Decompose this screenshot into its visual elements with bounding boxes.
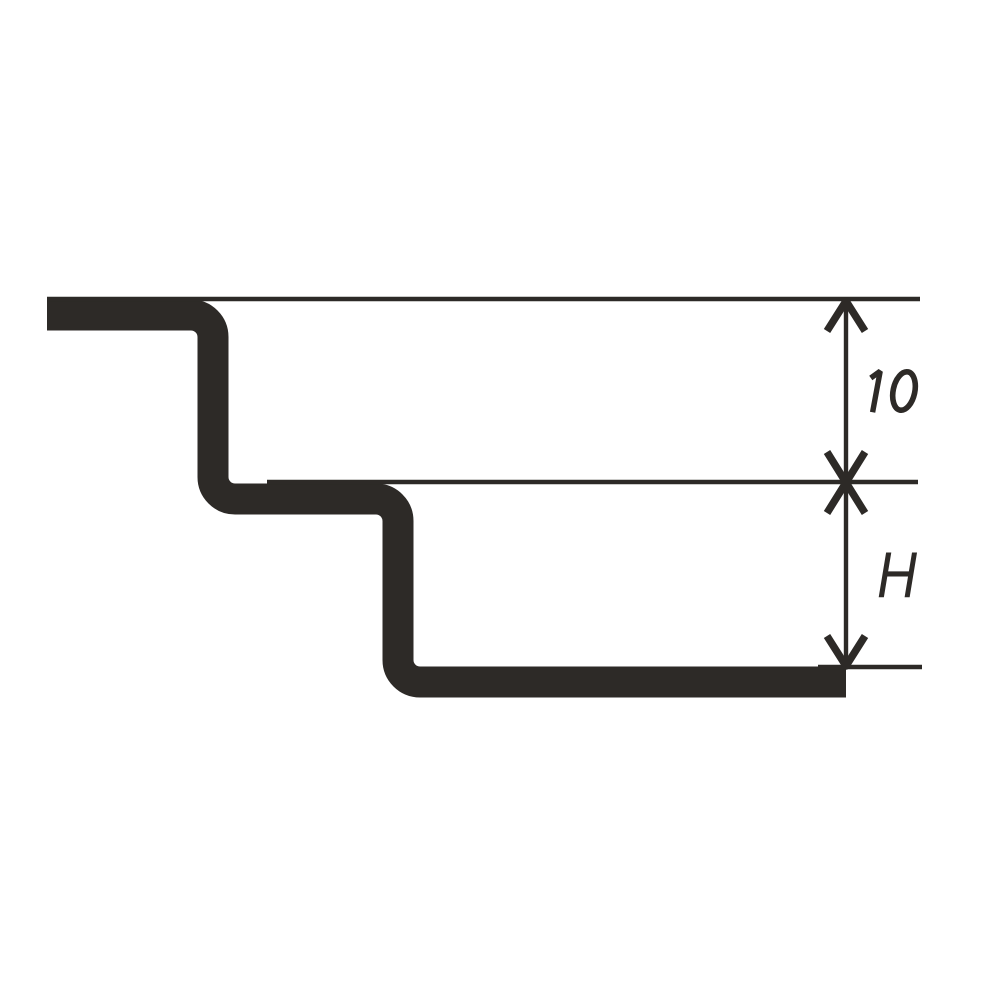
middle reference line bbox=[267, 480, 918, 484]
stepped sheet profile (thick) bbox=[47, 315, 846, 682]
top reference line bbox=[47, 297, 920, 301]
svg-text:H: H bbox=[877, 539, 917, 611]
arrowhead up (top) bbox=[827, 301, 865, 331]
label 10 bbox=[871, 370, 919, 413]
arrowhead down (bottom) bbox=[827, 636, 865, 666]
arrowhead cross (middle) bbox=[827, 452, 865, 513]
dimension line vertical bbox=[844, 301, 848, 666]
bottom reference line bbox=[818, 665, 922, 669]
